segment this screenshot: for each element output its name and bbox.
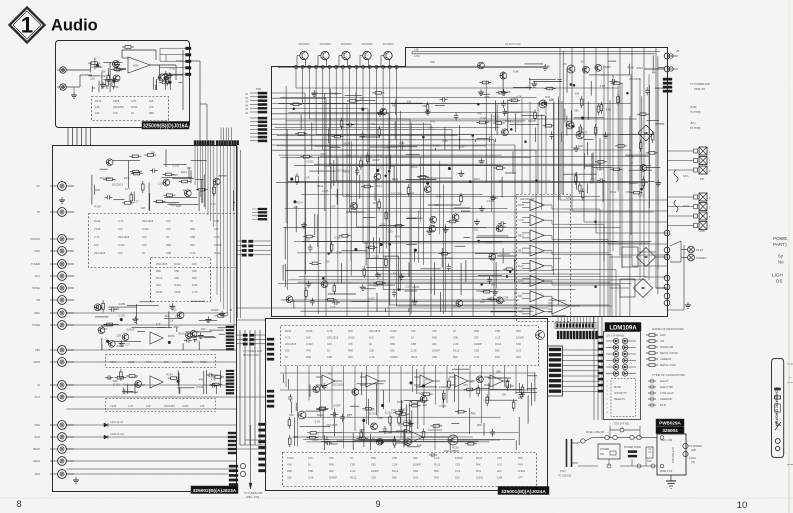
svg-text:C83: C83 bbox=[373, 284, 378, 288]
wire bbox=[116, 67, 126, 69]
wire bbox=[178, 82, 182, 84]
capacitor bbox=[109, 309, 112, 311]
wire bbox=[179, 388, 181, 394]
wire bbox=[449, 440, 451, 450]
resistor bbox=[168, 377, 171, 379]
transistor bbox=[424, 186, 431, 193]
wire bbox=[122, 390, 133, 392]
wire bbox=[325, 432, 343, 434]
wire bbox=[469, 408, 471, 434]
svg-text:2SC1815: 2SC1815 bbox=[164, 404, 175, 408]
wire bbox=[333, 408, 335, 436]
svg-text:7W: 7W bbox=[660, 339, 664, 343]
wires A to H2 bbox=[221, 128, 231, 141]
svg-text:R66: R66 bbox=[477, 423, 482, 427]
transistor bbox=[351, 203, 358, 210]
wire bbox=[544, 116, 546, 127]
svg-text:(B-L): (B-L) bbox=[690, 122, 696, 125]
svg-text:R112: R112 bbox=[392, 177, 399, 181]
svg-text:R112: R112 bbox=[376, 184, 383, 188]
svg-text:2.2K: 2.2K bbox=[190, 251, 196, 255]
jack label 6 bbox=[35, 274, 41, 278]
svg-text:R150: R150 bbox=[178, 332, 185, 336]
svg-text:330: 330 bbox=[327, 372, 332, 376]
svg-text:6.8K: 6.8K bbox=[192, 283, 198, 287]
svg-text:R214: R214 bbox=[94, 219, 101, 223]
transistor bbox=[376, 438, 383, 445]
pads J024A bbox=[267, 338, 274, 407]
wire bbox=[502, 248, 504, 263]
pad column mid bbox=[259, 423, 267, 472]
wire long bbox=[66, 448, 265, 450]
svg-text:6.8K: 6.8K bbox=[600, 84, 606, 88]
svg-text:6.8K: 6.8K bbox=[497, 476, 503, 480]
wires DIN out bbox=[562, 350, 600, 392]
wire bbox=[300, 114, 302, 129]
wire bbox=[377, 440, 401, 442]
wire bbox=[328, 128, 330, 143]
svg-text:10K: 10K bbox=[146, 404, 151, 408]
svg-text:R150: R150 bbox=[94, 204, 101, 208]
wire bbox=[479, 93, 490, 95]
transistor bbox=[496, 297, 503, 304]
ground bbox=[410, 420, 412, 423]
ground bbox=[323, 383, 325, 386]
wire bbox=[293, 300, 295, 309]
wire bbox=[390, 155, 392, 169]
wire bbox=[164, 317, 181, 319]
wire bbox=[165, 149, 167, 167]
capacitor bbox=[311, 298, 313, 301]
wire bbox=[524, 63, 543, 65]
svg-text:R66: R66 bbox=[156, 269, 161, 273]
wire A right exit bbox=[190, 61, 201, 140]
svg-text:R150: R150 bbox=[94, 188, 101, 192]
amp input cluster 1 bbox=[98, 325, 145, 351]
svg-text:P5R: P5R bbox=[700, 229, 705, 233]
jack label 3 bbox=[30, 237, 40, 241]
wire bbox=[561, 133, 564, 135]
svg-text:330: 330 bbox=[190, 243, 195, 247]
wire bbox=[576, 172, 578, 190]
svg-text:IC201: IC201 bbox=[597, 167, 605, 171]
wire bbox=[106, 79, 120, 81]
resistor bbox=[543, 125, 546, 127]
svg-text:R66: R66 bbox=[166, 243, 171, 247]
wire bbox=[494, 113, 496, 122]
wire bbox=[383, 255, 399, 257]
wire bbox=[218, 327, 233, 329]
resistor bbox=[513, 399, 515, 402]
wire bbox=[589, 74, 604, 76]
svg-text:100: 100 bbox=[308, 456, 313, 460]
svg-text:LOW LEAK: LOW LEAK bbox=[660, 391, 674, 395]
wire bbox=[315, 92, 341, 94]
svg-text:1K: 1K bbox=[411, 336, 414, 340]
list top text bbox=[285, 329, 524, 359]
board A right pads bbox=[186, 47, 192, 76]
transistor QM1 bbox=[567, 65, 575, 73]
svg-text:R112: R112 bbox=[392, 469, 399, 473]
wire bbox=[516, 391, 538, 393]
svg-text:C58: C58 bbox=[495, 329, 500, 333]
margin tick right lower bbox=[787, 464, 793, 466]
svg-text:1K: 1K bbox=[308, 463, 311, 467]
svg-text:10K: 10K bbox=[348, 329, 353, 333]
main preamp cluster bbox=[283, 152, 470, 312]
svg-text:PB 1: PB 1 bbox=[518, 250, 524, 253]
wire bbox=[188, 336, 215, 338]
pin header B1 bbox=[226, 326, 234, 350]
resistor bbox=[129, 155, 132, 157]
svg-text:0.01: 0.01 bbox=[455, 469, 461, 473]
resistor bbox=[631, 192, 634, 194]
resistor bbox=[166, 74, 168, 77]
svg-text:C105: C105 bbox=[171, 173, 178, 177]
wire bbox=[528, 375, 538, 377]
wire bbox=[98, 81, 100, 92]
svg-text:C101 44+O: C101 44+O bbox=[110, 421, 123, 424]
svg-text:100: 100 bbox=[579, 127, 584, 131]
cap C102 bbox=[114, 68, 122, 72]
op-amp U101 bbox=[128, 57, 176, 80]
transistor bbox=[98, 327, 105, 334]
transistor bbox=[489, 253, 496, 260]
svg-text:C58: C58 bbox=[503, 296, 508, 300]
wire bbox=[564, 109, 566, 123]
svg-text:R214: R214 bbox=[156, 290, 163, 294]
wire bbox=[282, 374, 284, 383]
ground bbox=[377, 272, 379, 275]
svg-text:2.2K: 2.2K bbox=[304, 176, 310, 180]
wire bbox=[389, 449, 391, 451]
wire bbox=[505, 172, 516, 174]
svg-text:R66: R66 bbox=[176, 204, 181, 208]
capacitor bbox=[506, 385, 509, 387]
wire bbox=[427, 177, 452, 179]
svg-text:47K: 47K bbox=[348, 342, 353, 346]
transistor row labels bbox=[299, 42, 394, 46]
lamp L2 bbox=[681, 248, 707, 261]
wire bbox=[483, 423, 485, 436]
switch SW1 bbox=[578, 431, 605, 443]
wire bbox=[496, 105, 498, 136]
svg-text:BEAT: BEAT bbox=[33, 447, 40, 451]
speaker curves bbox=[674, 170, 689, 212]
resistor bbox=[642, 177, 644, 180]
wire bbox=[566, 116, 568, 136]
resistor bbox=[652, 131, 654, 134]
junction bbox=[414, 249, 416, 251]
jack JB15 bbox=[50, 421, 74, 430]
capacitor bbox=[104, 196, 107, 198]
wire bbox=[398, 256, 400, 289]
resistor bbox=[163, 194, 166, 196]
svg-text:47K: 47K bbox=[113, 111, 118, 115]
svg-text:10K: 10K bbox=[575, 92, 580, 96]
wire feedback bbox=[122, 50, 156, 60]
svg-text:R41: R41 bbox=[652, 71, 657, 75]
svg-text:0.01: 0.01 bbox=[315, 420, 321, 424]
svg-text:STD SYLLA-4Y: STD SYLLA-4Y bbox=[672, 447, 675, 463]
top bus nodes bbox=[294, 65, 398, 68]
svg-text:56K: 56K bbox=[453, 355, 458, 359]
wire bbox=[295, 206, 297, 233]
junction dots bbox=[293, 83, 643, 290]
jack JB8 bbox=[50, 296, 74, 305]
diode D102 bbox=[104, 433, 125, 439]
jack JB9 bbox=[50, 309, 74, 318]
wire bbox=[652, 55, 654, 71]
main board outline bbox=[272, 48, 668, 317]
wire bbox=[629, 64, 631, 75]
resistor bbox=[361, 186, 364, 188]
page number 8 bbox=[16, 499, 21, 509]
svg-text:10K: 10K bbox=[118, 227, 123, 231]
wire bbox=[394, 121, 396, 139]
comparator ladder U301 bbox=[517, 195, 571, 322]
resistor bbox=[394, 436, 396, 439]
svg-text:TYPE OF CAPACITORS: TYPE OF CAPACITORS bbox=[652, 373, 685, 377]
wire long bbox=[66, 312, 228, 314]
dashed strip B4 bbox=[106, 399, 216, 412]
svg-text:8: 8 bbox=[16, 499, 21, 509]
transistor bbox=[371, 423, 378, 430]
svg-text:2.2K: 2.2K bbox=[350, 469, 356, 473]
resistor bbox=[159, 82, 162, 84]
svg-text:47K: 47K bbox=[417, 443, 422, 447]
svg-text:4.7K: 4.7K bbox=[327, 329, 333, 333]
resistor bbox=[289, 435, 291, 438]
resistor bbox=[486, 394, 488, 397]
svg-text:L4B: L4B bbox=[414, 49, 419, 52]
svg-text:10K: 10K bbox=[422, 403, 427, 407]
svg-text:56K: 56K bbox=[518, 456, 523, 460]
wire bbox=[359, 136, 380, 138]
amp input cluster 2 bbox=[105, 369, 145, 394]
wire bbox=[198, 192, 200, 211]
svg-text:MID: MID bbox=[518, 295, 523, 298]
wire bbox=[127, 386, 129, 395]
upper left mesh components bbox=[290, 90, 465, 150]
svg-text:56K: 56K bbox=[574, 109, 579, 113]
wires H2 down bbox=[217, 146, 234, 331]
jack JB6 bbox=[50, 272, 74, 281]
transistor QT3 bbox=[339, 51, 350, 67]
wire bbox=[360, 372, 362, 395]
resistor bbox=[481, 291, 484, 293]
svg-text:56K: 56K bbox=[417, 399, 422, 403]
wire bbox=[440, 292, 442, 312]
resistor bbox=[106, 77, 108, 80]
wire long bbox=[66, 468, 236, 470]
DIN connector bbox=[548, 346, 563, 396]
svg-text:330: 330 bbox=[287, 476, 292, 480]
wire bbox=[185, 331, 187, 332]
svg-text:STEREO: STEREO bbox=[696, 256, 707, 260]
jack label 19 bbox=[35, 472, 41, 476]
svg-text:C77: C77 bbox=[582, 68, 587, 72]
ground bbox=[362, 284, 364, 287]
lamp L1 bbox=[688, 246, 695, 253]
wire bbox=[383, 390, 385, 409]
wire bbox=[416, 386, 438, 388]
capacitor bbox=[646, 87, 648, 90]
wire bbox=[510, 123, 540, 125]
wire J024A horizontals bbox=[293, 417, 519, 442]
svg-text:R66: R66 bbox=[377, 154, 382, 158]
wire bundle right bbox=[560, 47, 667, 288]
wire bbox=[590, 81, 592, 96]
wire bbox=[501, 177, 503, 198]
svg-text:56K: 56K bbox=[495, 349, 500, 353]
vertical pair bus bbox=[238, 146, 241, 318]
svg-text:R112: R112 bbox=[214, 251, 221, 255]
wire bundle B-C bbox=[240, 330, 265, 445]
resistor bbox=[196, 189, 199, 191]
jack JB13 bbox=[50, 381, 74, 390]
board J023A outline bbox=[53, 146, 237, 492]
svg-text:SELECTS: SELECTS bbox=[614, 398, 625, 401]
wire bbox=[408, 309, 410, 313]
dashed block B1 bbox=[89, 214, 237, 268]
LDM indicator block bbox=[604, 332, 641, 420]
resistor bbox=[339, 235, 342, 237]
svg-text:HIGH: HIGH bbox=[518, 310, 524, 313]
capacitor bbox=[95, 307, 98, 309]
transistor bbox=[158, 74, 165, 81]
svg-text:PILOT: PILOT bbox=[696, 248, 704, 252]
wire bbox=[494, 139, 496, 143]
wire bbox=[534, 372, 536, 401]
svg-text:C83: C83 bbox=[432, 355, 437, 359]
resistor bbox=[360, 158, 362, 161]
svg-text:325002(B)(A)J023A: 325002(B)(A)J023A bbox=[193, 488, 237, 494]
resistor bbox=[397, 413, 400, 415]
svg-text:C105: C105 bbox=[110, 404, 117, 408]
svg-text:220: 220 bbox=[497, 469, 502, 473]
svg-text:47K: 47K bbox=[194, 339, 199, 343]
svg-text:C58: C58 bbox=[327, 355, 332, 359]
wire bbox=[295, 403, 297, 411]
wire bbox=[204, 337, 217, 339]
wire bbox=[203, 371, 205, 394]
index number 1 bbox=[21, 13, 33, 38]
svg-text:2SC1815: 2SC1815 bbox=[156, 262, 168, 266]
jack label 1 bbox=[36, 184, 40, 188]
wire bbox=[177, 387, 194, 389]
svg-text:4.7K: 4.7K bbox=[484, 95, 490, 99]
resistor bbox=[112, 77, 114, 80]
wire bbox=[363, 427, 365, 447]
resistor bbox=[362, 408, 365, 410]
jack JB19 bbox=[50, 470, 74, 479]
svg-text:330: 330 bbox=[371, 463, 376, 467]
wire bbox=[201, 179, 203, 202]
svg-text:6.8K: 6.8K bbox=[377, 416, 383, 420]
svg-text:AMP: AMP bbox=[691, 449, 697, 452]
svg-text:220: 220 bbox=[102, 327, 107, 331]
svg-text:220: 220 bbox=[407, 100, 412, 104]
wire bbox=[94, 57, 96, 69]
wire bbox=[387, 146, 417, 148]
svg-text:IN: IN bbox=[37, 383, 40, 387]
jack JB12 bbox=[50, 358, 74, 367]
wire bbox=[107, 68, 109, 77]
svg-text:TP: TP bbox=[37, 210, 41, 214]
label PWB029A bbox=[656, 419, 684, 434]
svg-text:C83: C83 bbox=[174, 276, 179, 280]
resistor bbox=[477, 385, 479, 388]
pin block P1 bbox=[250, 87, 267, 113]
wire bbox=[363, 217, 376, 219]
svg-text:2.2K: 2.2K bbox=[453, 342, 459, 346]
capacitor bbox=[504, 108, 506, 111]
wire bbox=[93, 185, 95, 195]
svg-text:47K: 47K bbox=[432, 329, 437, 333]
wire bbox=[490, 388, 523, 390]
svg-text:R66: R66 bbox=[190, 227, 195, 231]
svg-text:2SC1815: 2SC1815 bbox=[285, 342, 297, 346]
svg-text:LDM109A: LDM109A bbox=[609, 325, 637, 331]
wire bbox=[584, 138, 594, 140]
svg-text:R66: R66 bbox=[149, 111, 154, 115]
transistor QT5 bbox=[381, 51, 392, 67]
svg-text:C83: C83 bbox=[455, 463, 460, 467]
capacitor bbox=[289, 394, 291, 397]
arrow line bbox=[249, 425, 252, 489]
resistor bbox=[423, 429, 425, 432]
wire bbox=[488, 377, 511, 379]
svg-text:330: 330 bbox=[329, 469, 334, 473]
resistor bbox=[331, 136, 334, 138]
capacitor bbox=[455, 112, 457, 115]
svg-text:R41: R41 bbox=[371, 122, 376, 126]
svg-text:1000P: 1000P bbox=[333, 404, 341, 408]
svg-text:C105: C105 bbox=[544, 65, 551, 69]
wire bbox=[155, 85, 157, 90]
resistor bbox=[317, 407, 320, 409]
svg-text:R112: R112 bbox=[434, 463, 441, 467]
svg-text:R112: R112 bbox=[453, 349, 460, 353]
junction bbox=[168, 341, 170, 343]
capacitor bbox=[498, 223, 501, 225]
capacitor bbox=[105, 377, 108, 379]
wire bbox=[101, 344, 103, 350]
svg-text:CAP: CAP bbox=[647, 460, 652, 463]
svg-text:10K: 10K bbox=[149, 99, 154, 103]
svg-text:1K: 1K bbox=[131, 111, 134, 115]
svg-text:2SC2603: 2SC2603 bbox=[383, 42, 394, 46]
wire mesh fill2 bbox=[275, 65, 658, 280]
svg-text:0.022: 0.022 bbox=[182, 404, 189, 408]
svg-text:C58: C58 bbox=[505, 90, 510, 94]
capacitor bbox=[502, 100, 504, 103]
svg-text:BY P5(B): BY P5(B) bbox=[690, 127, 701, 130]
svg-text:R112: R112 bbox=[373, 201, 380, 205]
svg-text:IC201: IC201 bbox=[412, 285, 420, 289]
to-tuner text bbox=[243, 349, 263, 357]
resistor bbox=[637, 113, 640, 115]
wire bbox=[435, 105, 445, 107]
svg-text:220: 220 bbox=[156, 283, 161, 287]
resistor bbox=[341, 118, 343, 121]
wire bbox=[284, 227, 286, 260]
transistor bbox=[430, 216, 437, 223]
wire bbox=[507, 237, 516, 239]
resistor bbox=[153, 201, 156, 203]
svg-text:C58: C58 bbox=[360, 428, 365, 432]
